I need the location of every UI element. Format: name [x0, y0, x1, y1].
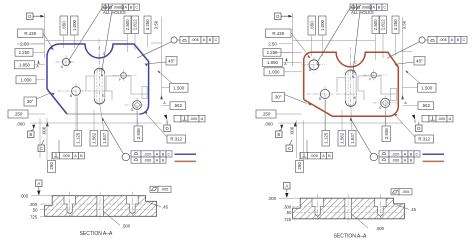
svg-text:SECTION A–A: SECTION A–A	[80, 231, 113, 237]
svg-text:.725: .725	[29, 215, 38, 220]
svg-text:B: B	[410, 151, 413, 156]
vertical dimension box .650 (right view)	[308, 16, 316, 35]
svg-text:.650: .650	[309, 21, 314, 30]
svg-text:A: A	[404, 158, 407, 163]
svg-text:2.938: 2.938	[136, 128, 141, 140]
svg-text:1.837: 1.837	[102, 132, 107, 144]
svg-text:1.562: 1.562	[339, 132, 344, 144]
svg-text:2.500: 2.500	[373, 19, 378, 31]
hole G (right view)	[381, 98, 390, 107]
datum flag C (right view)	[286, 145, 293, 152]
datum flag C (left view)	[38, 145, 45, 152]
svg-text:1.000: 1.000	[21, 77, 33, 82]
svg-text:.020: .020	[144, 151, 153, 156]
dimension box 1.850 (right view)	[263, 58, 283, 66]
flatness FCF .005 (left section)	[150, 186, 158, 192]
svg-text:.250: .250	[297, 162, 302, 171]
extension line right edge top (right view)	[402, 17, 404, 100]
vertical dimension box .250 (right view)	[296, 161, 304, 173]
svg-text:R.438: R.438	[24, 31, 36, 36]
vertical dimension box 2.500 (right view)	[372, 16, 379, 34]
angle box 40deg (left view)	[166, 57, 177, 66]
extension line from datum D to part corner (left view)	[44, 13, 46, 58]
vertical dimension box 2.500 (left view)	[124, 16, 131, 34]
datum flag A (left section)	[36, 180, 43, 187]
svg-text:A: A	[156, 151, 159, 156]
svg-text:.005: .005	[62, 153, 71, 158]
svg-text:.005: .005	[402, 189, 411, 194]
section profile (left)	[45, 196, 157, 217]
part bottom edge (right view)	[333, 115, 389, 117]
svg-text:1.850: 1.850	[267, 60, 279, 65]
radius callout R.438 (left view)	[18, 29, 44, 38]
vertical dimension box 1.562 (left view)	[90, 131, 98, 147]
svg-text:B: B	[80, 153, 83, 158]
dimension row line (right view)	[278, 122, 403, 124]
svg-text:.000: .000	[268, 196, 277, 201]
hole G (left view)	[133, 101, 142, 110]
dimension row line (left view)	[30, 122, 162, 124]
svg-text:A: A	[451, 37, 454, 42]
svg-text:3.50: 3.50	[402, 20, 407, 29]
svg-text:.562: .562	[422, 103, 431, 108]
angle box 30deg (left view)	[24, 97, 37, 106]
svg-text:A: A	[373, 6, 376, 10]
position FCF all holes (left view)	[102, 4, 109, 10]
extension lines around part (right view)	[274, 51, 302, 53]
svg-text:ALL HOLES: ALL HOLES	[103, 10, 126, 15]
through slot hole (left section)	[97, 196, 103, 216]
svg-text:C: C	[288, 146, 291, 151]
vertical dimension box .650 (left view)	[60, 16, 68, 35]
composite profile FCF (right view)	[370, 153, 377, 160]
svg-text:B: B	[70, 94, 72, 98]
dimension box 2.250 (left view)	[15, 49, 33, 57]
leader from hole FCF to hole A (right view)	[317, 8, 350, 63]
svg-text:.562: .562	[174, 103, 183, 108]
pocket hidden lines left of slot (right view)	[337, 78, 345, 93]
svg-text:A: A	[404, 151, 407, 156]
svg-text:.000: .000	[16, 122, 25, 127]
svg-text:B: B	[457, 37, 460, 42]
legend blue contour line (right view)	[423, 153, 445, 155]
svg-text:A: A	[156, 158, 159, 163]
angle box 30deg (right view)	[272, 93, 285, 102]
vertical dimension box 1.125 (left view)	[74, 131, 82, 147]
svg-text:B: B	[209, 37, 212, 42]
counterbored hole right (left section)	[127, 196, 138, 214]
flatness FCF .005 A with datum D (right view)	[412, 115, 415, 120]
dimension box .562 (right view)	[418, 102, 434, 110]
svg-text:.006: .006	[191, 37, 200, 42]
svg-text:E: E	[354, 96, 356, 100]
svg-text:B: B	[410, 158, 413, 163]
top dimension row line (right view)	[293, 39, 375, 41]
vertical dimension box 1.837 (left view)	[101, 131, 109, 147]
section profile (right)	[293, 198, 405, 219]
svg-text:30°: 30°	[27, 99, 34, 104]
notch centerline and label (right view)	[350, 47, 352, 71]
perpendicularity FCF .005 A B (right view)	[301, 152, 308, 159]
hole B (left view)	[72, 87, 81, 96]
svg-text:.008: .008	[113, 6, 120, 10]
leader from hole FCF to slot (right view)	[353, 11, 360, 75]
svg-text:D: D	[417, 126, 420, 131]
legend red contour line (right view)	[423, 160, 445, 162]
svg-text:.500: .500	[122, 223, 131, 228]
extension lines around part (left view)	[17, 43, 45, 45]
svg-text:B: B	[328, 153, 331, 158]
extension line right edge top (left view)	[161, 17, 163, 100]
svg-text:R.312: R.312	[418, 137, 430, 142]
leader from balloon to angled edge (right view)	[387, 42, 419, 58]
hole A (right view)	[309, 60, 319, 70]
counterbored hole left (left section)	[64, 196, 75, 214]
counterbore depth dashed line (left section)	[45, 203, 157, 205]
composite profile FCF (left view)	[122, 153, 129, 160]
datum flag B (left view)	[28, 131, 35, 138]
svg-text:.45: .45	[162, 204, 168, 209]
svg-text:2.50: 2.50	[268, 41, 277, 46]
part bottom edge (left view)	[67, 113, 140, 115]
position FCF all holes (right view)	[350, 4, 357, 10]
pocket hidden lines (left view)	[106, 76, 147, 94]
svg-text:B: B	[162, 158, 165, 163]
svg-text:1.837: 1.837	[350, 132, 355, 144]
svg-text:1.500: 1.500	[421, 85, 433, 90]
svg-text:.000: .000	[290, 126, 295, 135]
svg-text:C: C	[168, 151, 171, 156]
slot (left view)	[94, 68, 105, 73]
svg-text:.020: .020	[392, 151, 401, 156]
svg-text:A: A	[37, 181, 40, 186]
vertical dimension box 2.938 (right view)	[382, 126, 391, 142]
through slot hole (right section)	[345, 199, 351, 219]
counterbore depth dashed line (right section)	[293, 206, 405, 208]
vertical dimension box 1.562 (right view)	[338, 131, 346, 147]
svg-text:40°: 40°	[168, 58, 175, 63]
svg-text:A: A	[201, 116, 204, 121]
perpendicularity FCF .005 A B (left view)	[53, 152, 60, 159]
svg-text:.50: .50	[32, 208, 38, 213]
svg-text:A: A	[449, 116, 452, 121]
part 30deg edge (right view)	[304, 100, 333, 117]
svg-text:F: F	[119, 78, 121, 82]
part 30deg edge (left view)	[47, 89, 67, 114]
hole A (left view)	[62, 58, 69, 65]
angle box 40deg (right view)	[414, 57, 425, 66]
svg-text:.250: .250	[14, 112, 23, 117]
svg-text:1.562: 1.562	[91, 132, 96, 144]
svg-text:2.812: 2.812	[381, 19, 386, 31]
leader from hole FCF to hole A (left view)	[69, 8, 102, 60]
hidden rectangle near right edge (left view)	[142, 87, 147, 99]
svg-text:A: A	[125, 6, 128, 10]
svg-text:R.438: R.438	[272, 31, 284, 36]
svg-text:.006: .006	[439, 37, 448, 42]
vertical dimension box 2.938 (left view)	[134, 126, 143, 142]
svg-text:A: A	[322, 153, 325, 158]
dimension box 1.000 (left view)	[16, 76, 36, 84]
top dimension row line (left view)	[45, 39, 127, 41]
hole F (right view)	[371, 72, 377, 78]
leader from hole FCF to slot (left view)	[102, 11, 113, 73]
counterbored hole right (right section)	[375, 199, 386, 217]
svg-text:1.000: 1.000	[320, 19, 325, 31]
slot (right view)	[345, 70, 356, 75]
part outline (right view)	[304, 52, 399, 116]
svg-text:C: C	[416, 151, 419, 156]
svg-text:.000: .000	[20, 193, 29, 198]
datum flag D (right view)	[275, 13, 282, 20]
svg-text:1.000: 1.000	[72, 19, 77, 31]
svg-text:F: F	[369, 78, 371, 82]
svg-text:R.312: R.312	[170, 137, 182, 142]
vertical dimension box 2.812 (right view)	[380, 16, 387, 34]
vertical dimension box 3.250 (left view)	[144, 16, 151, 34]
hole F (left view)	[121, 73, 127, 79]
svg-text:.005: .005	[190, 116, 199, 121]
radius callout R.312 (right view)	[415, 135, 434, 143]
counterbored hole left (right section)	[312, 199, 323, 217]
svg-text:.250: .250	[49, 162, 54, 171]
legend red contour line (left view)	[175, 160, 197, 162]
svg-text:.000: .000	[42, 126, 47, 135]
svg-text:2.500: 2.500	[125, 19, 130, 31]
svg-text:B: B	[319, 97, 321, 101]
flatness FCF .005 A with datum D (left view)	[164, 115, 167, 120]
legend blue contour line (left view)	[175, 153, 197, 155]
radius callout R.438 (right view)	[266, 29, 292, 38]
svg-text:1.000: 1.000	[269, 69, 281, 74]
svg-text:1.125: 1.125	[323, 132, 328, 144]
dimension box 1.850 (left view)	[15, 61, 35, 69]
svg-text:.005: .005	[161, 187, 170, 192]
svg-text:C: C	[215, 37, 218, 42]
dimension box .562 (left view)	[170, 102, 186, 110]
svg-text:3.250: 3.250	[145, 19, 150, 31]
svg-text:A: A	[285, 184, 288, 189]
svg-text:B: B	[277, 132, 280, 137]
svg-text:A: A	[74, 153, 77, 158]
pocket hidden lines (right view)	[358, 76, 396, 94]
dimension box 1.000 (right view)	[264, 68, 284, 76]
svg-text:40°: 40°	[416, 58, 423, 63]
svg-text:.50: .50	[286, 210, 292, 215]
svg-text:.000: .000	[264, 122, 273, 127]
svg-text:30°: 30°	[275, 95, 282, 100]
vertical dimension box 1.000 upper (left view)	[71, 16, 79, 35]
svg-text:D: D	[28, 14, 31, 19]
part outline (left view)	[47, 44, 149, 114]
svg-text:C: C	[463, 37, 466, 42]
flatness FCF .005 (right section)	[391, 189, 399, 195]
svg-text:2.250: 2.250	[19, 50, 31, 55]
svg-text:B: B	[378, 6, 381, 10]
svg-text:.005: .005	[310, 153, 319, 158]
svg-text:.250: .250	[262, 112, 271, 117]
svg-text:D: D	[276, 14, 279, 19]
svg-text:C: C	[135, 6, 138, 10]
hidden rectangle near right edge (right view)	[390, 88, 397, 100]
svg-text:.500: .500	[376, 226, 385, 231]
svg-text:.650: .650	[61, 21, 66, 30]
svg-text:3.250: 3.250	[393, 19, 398, 31]
svg-text:.008: .008	[361, 6, 368, 10]
datum flag D (left view)	[27, 13, 34, 20]
vertical dimension box .250 (left view)	[48, 161, 56, 173]
svg-text:.005: .005	[438, 116, 447, 121]
svg-text:B: B	[29, 132, 32, 137]
datum flag A (right section)	[284, 183, 291, 190]
svg-text:3.50: 3.50	[154, 20, 159, 29]
profile FCF with balloon (left view)	[171, 37, 177, 43]
svg-text:1.850: 1.850	[19, 62, 31, 67]
dimension box 1.500 (right view)	[418, 83, 437, 92]
vertical dimension box 1.000 upper (right view)	[319, 16, 327, 35]
svg-text:1.125: 1.125	[75, 132, 80, 144]
svg-text:SECTION A–A: SECTION A–A	[334, 234, 367, 240]
svg-text:B: B	[130, 6, 133, 10]
svg-text:A: A	[203, 37, 206, 42]
svg-text:ALL HOLES: ALL HOLES	[351, 10, 374, 15]
svg-text:B: B	[162, 151, 165, 156]
svg-text:1.500: 1.500	[173, 85, 185, 90]
svg-text:C: C	[383, 6, 386, 10]
svg-text:.300: .300	[29, 202, 38, 207]
svg-text:E: E	[102, 94, 104, 98]
vertical dimension box 2.812 (left view)	[132, 16, 139, 34]
svg-text:D: D	[166, 126, 169, 131]
svg-text:.300: .300	[283, 204, 292, 209]
extension line from datum D to part corner (right view)	[292, 13, 294, 66]
leader from balloon to angled edge (left view)	[137, 42, 171, 58]
notch centerline and label (left view)	[98, 39, 100, 62]
svg-text:.45: .45	[410, 207, 416, 212]
hole B (right view)	[320, 89, 329, 98]
svg-text:2.938: 2.938	[384, 128, 389, 140]
datum flag B (right view)	[276, 131, 283, 138]
radius callout R.312 (left view)	[167, 135, 186, 143]
dimension box .250 (left view)	[8, 110, 28, 118]
dimension box .250 (right view)	[256, 110, 276, 118]
svg-text:.006: .006	[144, 158, 153, 163]
pocket hidden lines left of slot (left view)	[86, 76, 94, 91]
vertical dimension box 3.250 (right view)	[392, 16, 399, 34]
svg-text:.006: .006	[392, 158, 401, 163]
svg-text:.725: .725	[283, 217, 292, 222]
dimension box 1.500 (left view)	[170, 83, 189, 92]
profile FCF with balloon (right view)	[419, 37, 425, 43]
vertical dimension box 1.837 (right view)	[349, 131, 357, 147]
dimension box 2.250 (right view)	[263, 49, 281, 57]
svg-text:2.812: 2.812	[133, 19, 138, 31]
vertical dimension box 1.125 (right view)	[322, 131, 330, 147]
